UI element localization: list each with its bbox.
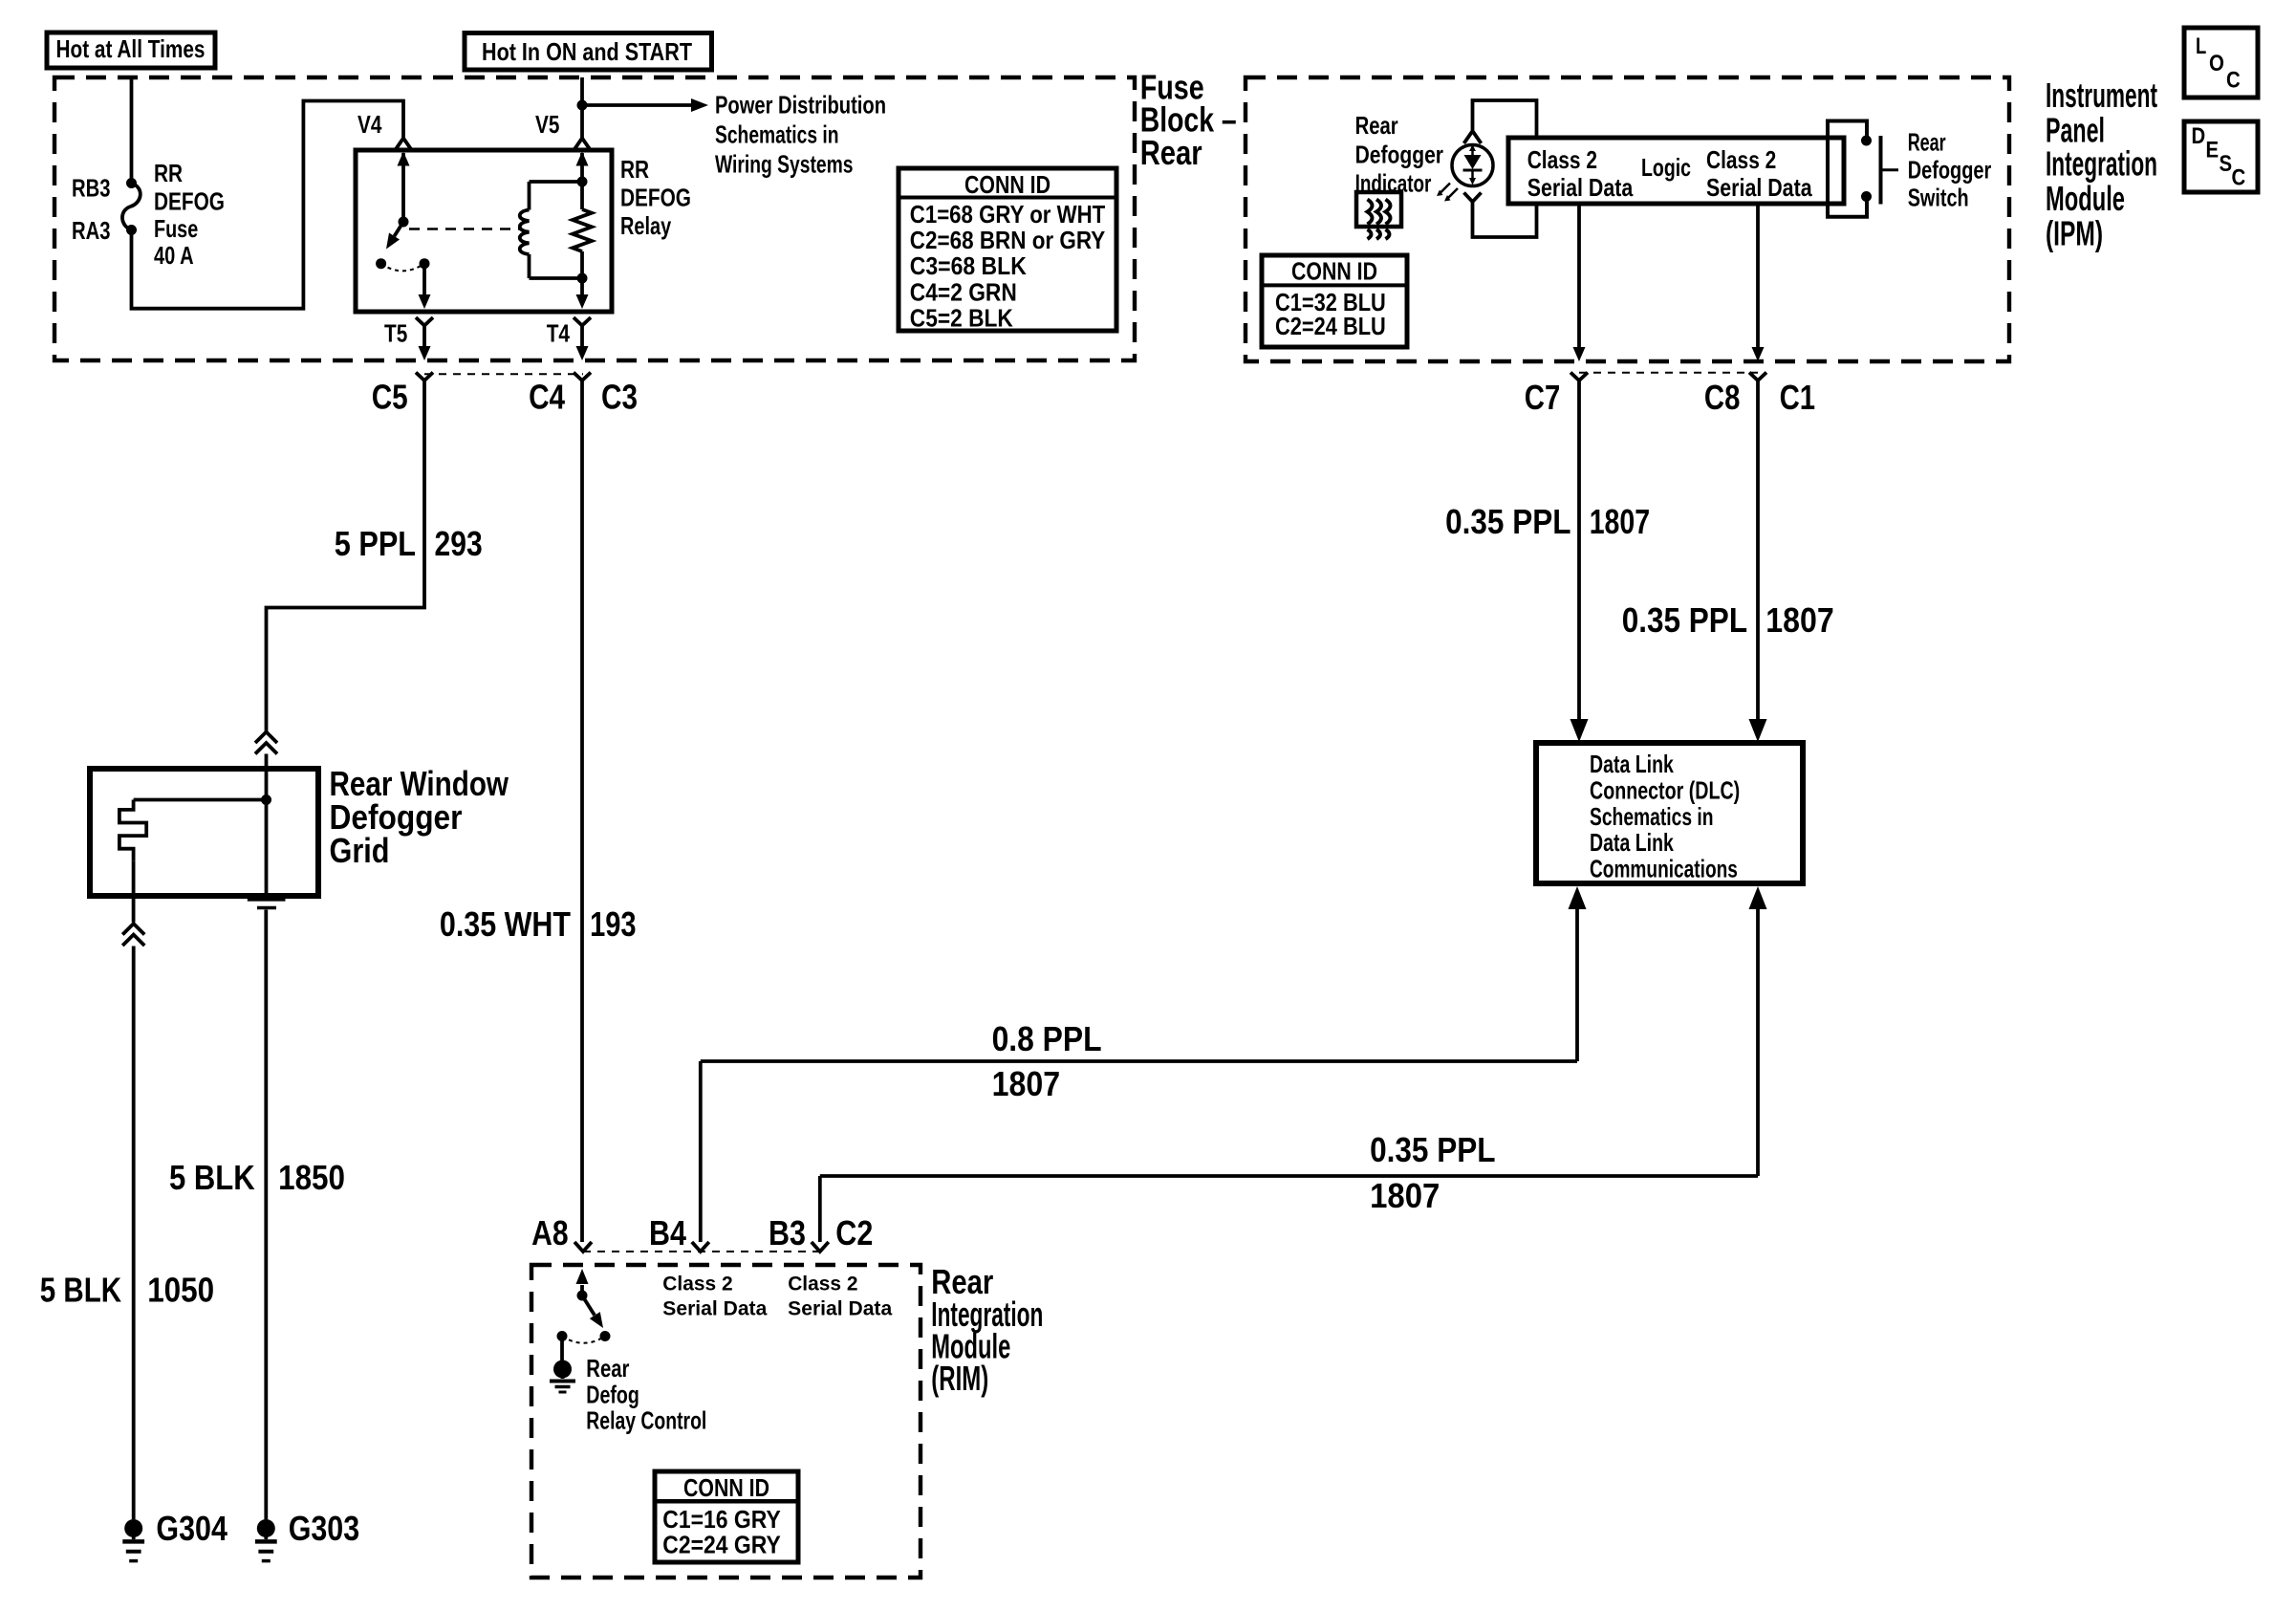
svg-text:CONN ID: CONN ID	[683, 1473, 769, 1502]
svg-text:Schematics in: Schematics in	[715, 120, 839, 149]
svg-text:RB3: RB3	[72, 174, 111, 203]
svg-text:G304: G304	[156, 1509, 227, 1548]
svg-text:Data Link: Data Link	[1590, 750, 1674, 778]
svg-text:Hot at All Times: Hot at All Times	[56, 34, 206, 63]
svg-text:C1: C1	[1780, 378, 1816, 417]
svg-text:5 BLK: 5 BLK	[169, 1158, 255, 1197]
svg-text:Serial Data: Serial Data	[662, 1298, 767, 1320]
svg-text:V5: V5	[535, 110, 559, 139]
svg-text:Grid: Grid	[330, 831, 390, 870]
svg-text:40 A: 40 A	[154, 241, 194, 270]
svg-text:DEFOG: DEFOG	[620, 184, 691, 212]
svg-text:C2=24 BLU: C2=24 BLU	[1275, 312, 1386, 340]
svg-text:S: S	[2220, 151, 2233, 177]
svg-text:T5: T5	[384, 319, 407, 348]
svg-text:193: 193	[590, 904, 637, 944]
svg-text:0.35 PPL: 0.35 PPL	[1622, 600, 1747, 640]
svg-text:C3=68 BLK: C3=68 BLK	[910, 251, 1027, 280]
svg-text:Rear: Rear	[1355, 111, 1398, 140]
svg-text:B4: B4	[649, 1213, 686, 1252]
svg-text:Class 2: Class 2	[662, 1274, 732, 1295]
svg-text:Rear: Rear	[586, 1354, 629, 1382]
svg-text:Relay Control: Relay Control	[586, 1405, 706, 1434]
svg-text:C4: C4	[529, 378, 565, 417]
svg-text:Defogger: Defogger	[1908, 156, 1992, 185]
svg-text:V4: V4	[357, 110, 382, 139]
svg-text:Defogger: Defogger	[1355, 141, 1443, 169]
svg-text:Module: Module	[2046, 179, 2125, 218]
svg-text:C2=68 BRN or GRY: C2=68 BRN or GRY	[910, 226, 1105, 254]
svg-text:1807: 1807	[1370, 1176, 1440, 1215]
svg-text:Power Distribution: Power Distribution	[715, 90, 886, 119]
svg-text:Data Link: Data Link	[1590, 828, 1674, 857]
svg-text:CONN ID: CONN ID	[1291, 257, 1377, 286]
svg-text:L: L	[2196, 33, 2206, 59]
svg-text:Wiring Systems: Wiring Systems	[715, 150, 854, 179]
svg-text:C2=24 GRY: C2=24 GRY	[662, 1530, 781, 1558]
svg-text:C: C	[2226, 68, 2241, 94]
svg-text:1807: 1807	[1765, 600, 1833, 640]
svg-text:O: O	[2209, 51, 2224, 76]
svg-text:(IPM): (IPM)	[2046, 214, 2103, 253]
svg-text:C2: C2	[835, 1213, 873, 1252]
svg-text:0.35 PPL: 0.35 PPL	[1370, 1130, 1495, 1169]
svg-text:C1=68 GRY or WHT: C1=68 GRY or WHT	[910, 200, 1105, 229]
svg-text:1050: 1050	[147, 1270, 214, 1309]
svg-text:Communications: Communications	[1590, 855, 1738, 883]
svg-text:(RIM): (RIM)	[931, 1359, 988, 1398]
svg-text:Relay: Relay	[620, 211, 672, 240]
svg-text:1807: 1807	[992, 1064, 1061, 1103]
svg-text:5 BLK: 5 BLK	[40, 1270, 121, 1309]
svg-text:Defog: Defog	[586, 1381, 639, 1409]
svg-text:Rear: Rear	[1908, 128, 1946, 157]
svg-text:293: 293	[435, 524, 483, 563]
svg-text:Schematics in: Schematics in	[1590, 802, 1714, 831]
svg-text:Serial Data: Serial Data	[1527, 173, 1634, 202]
svg-text:C7: C7	[1525, 378, 1561, 417]
svg-text:Serial Data: Serial Data	[788, 1298, 892, 1320]
svg-text:C1=16 GRY: C1=16 GRY	[662, 1505, 781, 1534]
svg-text:Fuse: Fuse	[154, 214, 198, 243]
svg-text:RR: RR	[620, 155, 649, 184]
svg-text:Instrument: Instrument	[2046, 76, 2157, 115]
svg-text:0.8 PPL: 0.8 PPL	[992, 1019, 1102, 1058]
svg-text:DEFOG: DEFOG	[154, 187, 225, 216]
svg-text:Serial Data: Serial Data	[1706, 173, 1812, 202]
svg-text:C3: C3	[601, 378, 638, 417]
svg-text:A8: A8	[531, 1213, 569, 1252]
svg-text:G303: G303	[289, 1509, 360, 1548]
svg-text:RA3: RA3	[72, 216, 111, 245]
svg-text:C: C	[2232, 165, 2246, 191]
svg-text:Integration: Integration	[2046, 143, 2157, 183]
svg-text:Class 2: Class 2	[1527, 145, 1597, 174]
svg-text:Class 2: Class 2	[1706, 145, 1776, 174]
svg-text:0.35 PPL: 0.35 PPL	[1445, 502, 1570, 541]
svg-text:B3: B3	[769, 1213, 806, 1252]
svg-text:E: E	[2206, 138, 2220, 163]
svg-text:1807: 1807	[1590, 502, 1650, 541]
svg-text:C5: C5	[372, 378, 408, 417]
svg-text:CONN ID: CONN ID	[964, 170, 1051, 199]
svg-text:Rear: Rear	[1140, 133, 1202, 172]
svg-text:Switch: Switch	[1908, 184, 1969, 212]
svg-text:C5=2 BLK: C5=2 BLK	[910, 303, 1013, 332]
svg-text:T4: T4	[547, 319, 571, 348]
svg-text:D: D	[2192, 123, 2206, 149]
svg-text:Hot In ON and START: Hot In ON and START	[482, 37, 692, 66]
svg-text:Class 2: Class 2	[788, 1274, 857, 1295]
svg-text:Logic: Logic	[1641, 153, 1691, 182]
svg-text:5 PPL: 5 PPL	[335, 524, 416, 563]
svg-text:Connector (DLC): Connector (DLC)	[1590, 775, 1740, 804]
svg-text:C4=2 GRN: C4=2 GRN	[910, 278, 1017, 307]
svg-text:C8: C8	[1704, 378, 1741, 417]
svg-text:0.35 WHT: 0.35 WHT	[440, 904, 571, 944]
svg-text:RR: RR	[154, 159, 183, 187]
svg-text:1850: 1850	[278, 1158, 345, 1197]
